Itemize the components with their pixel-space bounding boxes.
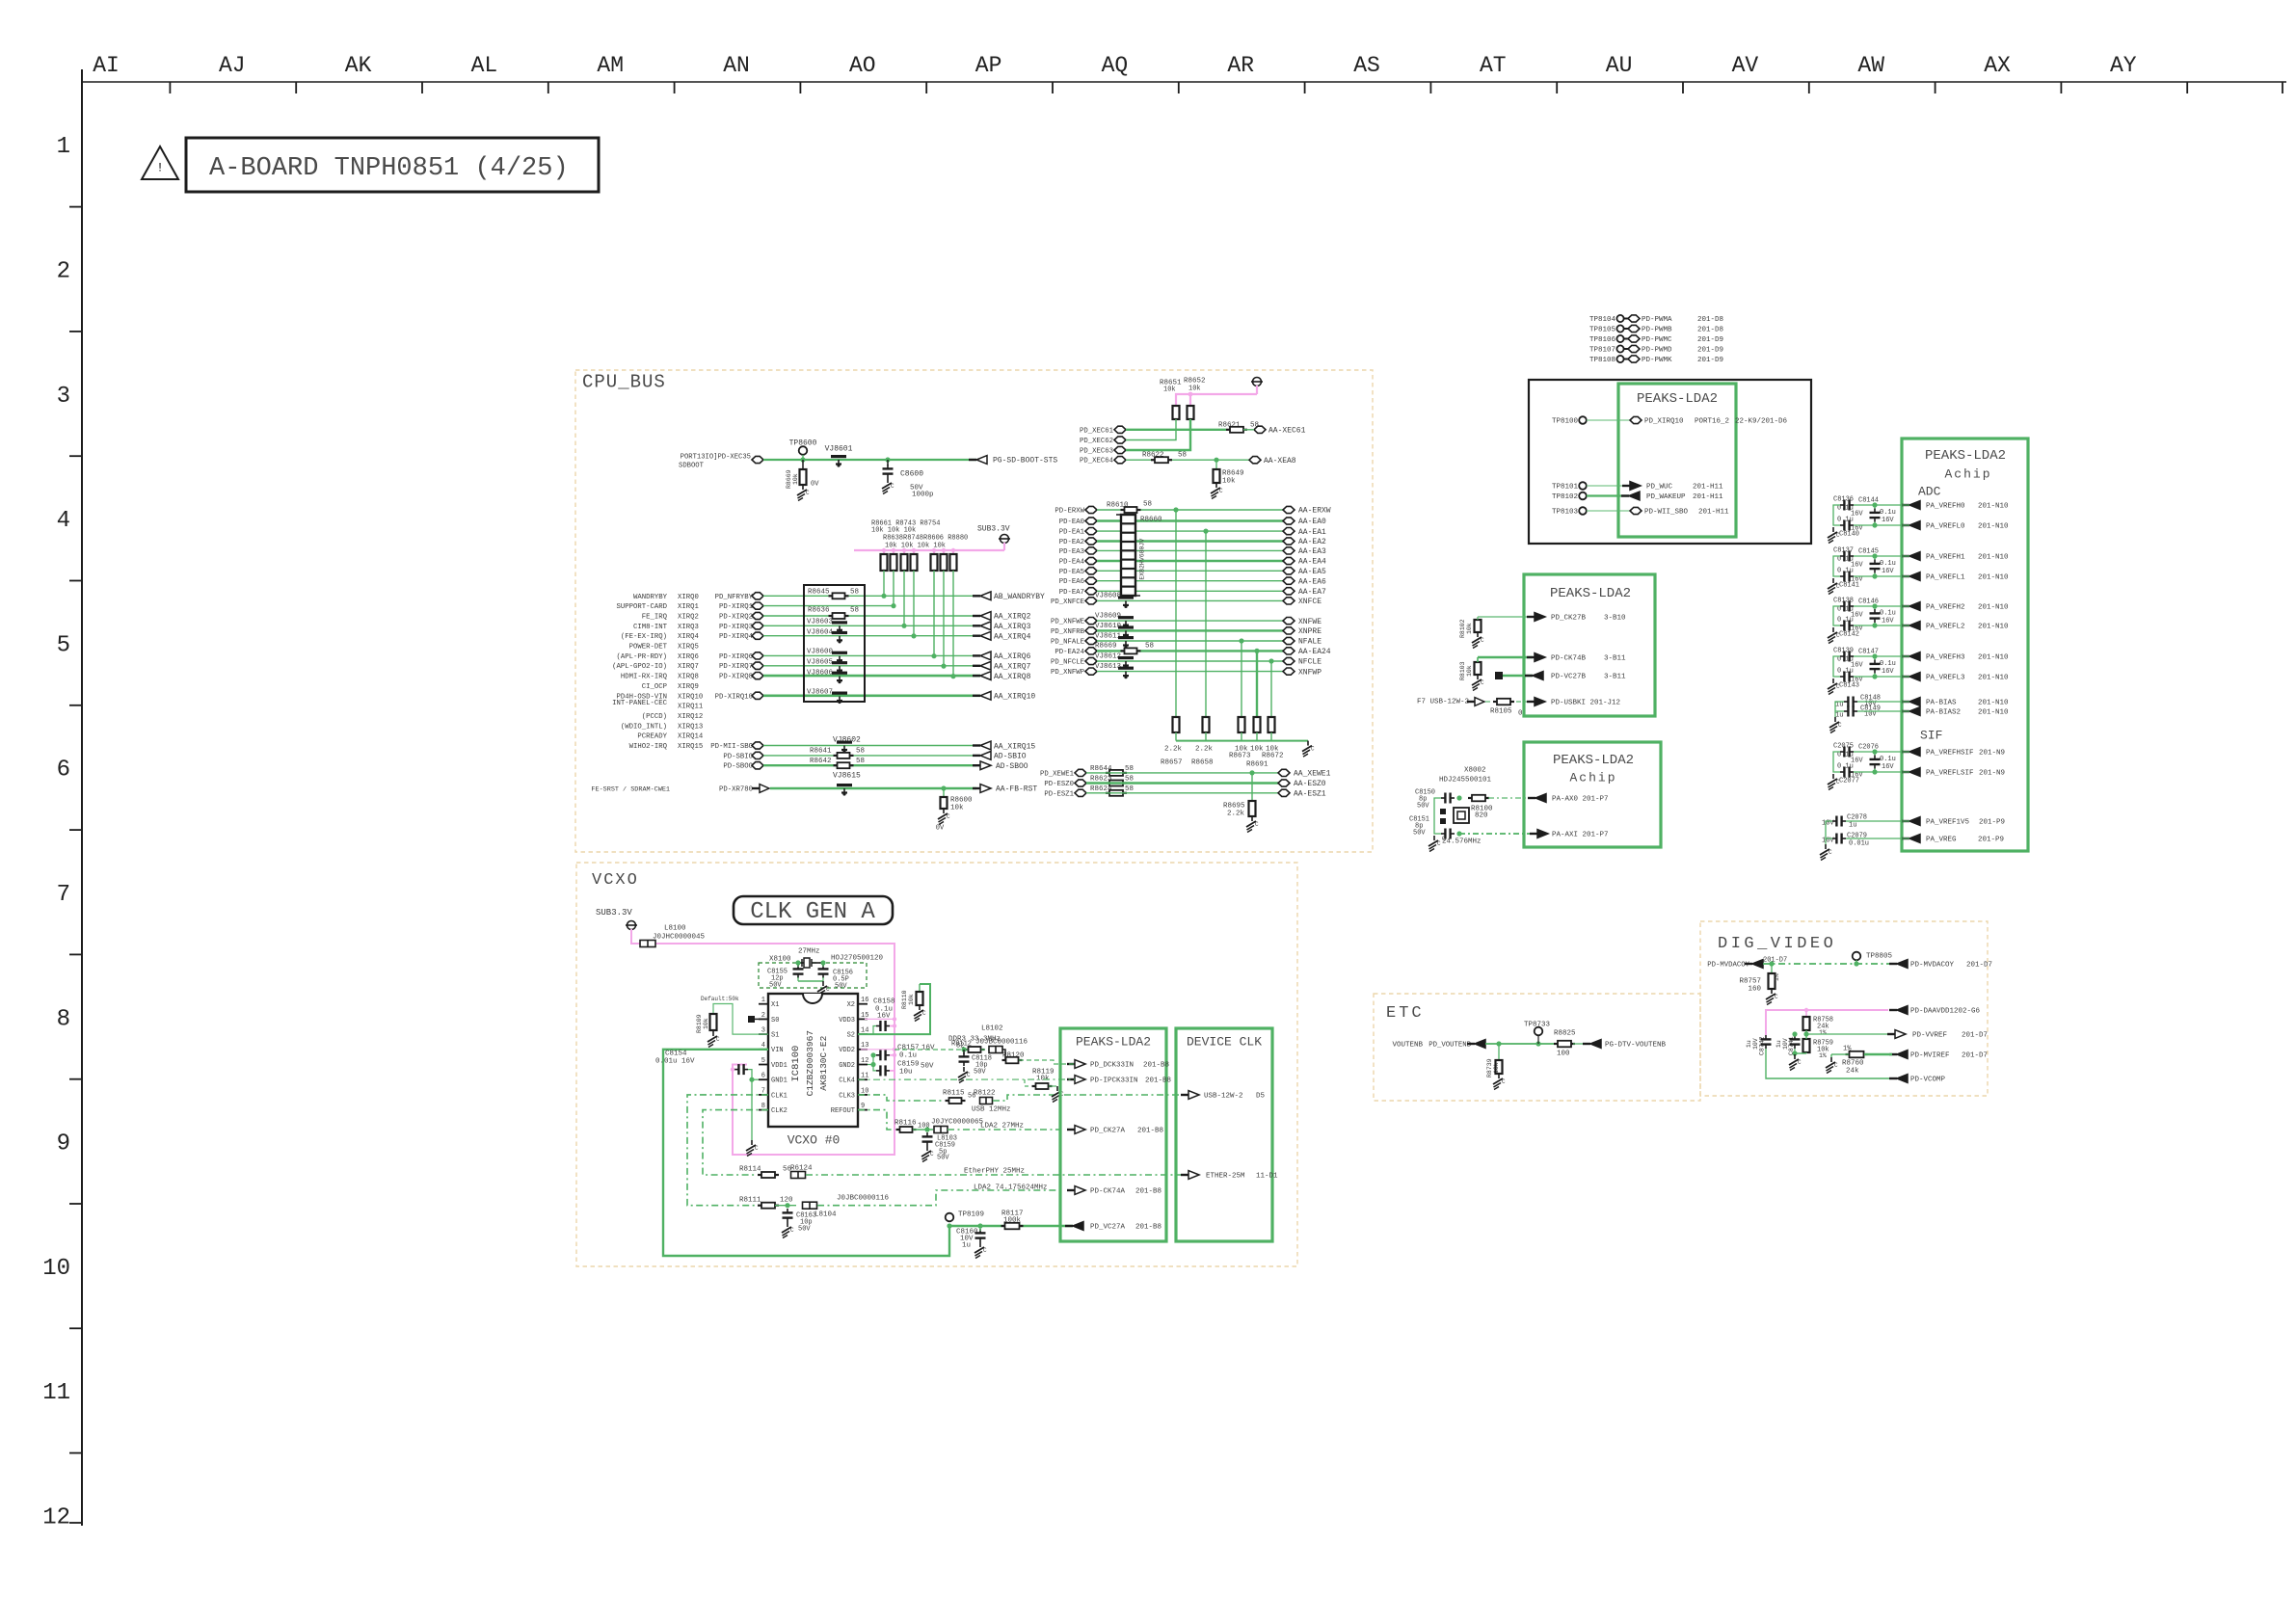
- labels pulldown values: [1164, 746, 1279, 754]
- svg-text:C: C: [1502, 1078, 1506, 1085]
- wire PD-EA1: [1097, 530, 1283, 532]
- svg-text:TP8108: TP8108: [1589, 357, 1615, 364]
- svg-text:PD-MVDACOY: PD-MVDACOY: [1707, 962, 1749, 970]
- wire PD-EA4: [1097, 560, 1283, 562]
- wire PD-EA7: [1097, 590, 1283, 592]
- svg-text:16V: 16V: [1882, 668, 1894, 676]
- labels PD_XNFRB: [1051, 627, 1097, 636]
- svg-text:AA-EA2: AA-EA2: [1298, 538, 1326, 546]
- svg-text:C8141: C8141: [1839, 581, 1859, 589]
- svg-text:EtherPHY 25MHz: EtherPHY 25MHz: [964, 1168, 1025, 1176]
- svg-text:PD_NFRYBY: PD_NFRYBY: [715, 594, 754, 601]
- svg-text:PD_XEC63: PD_XEC63: [1080, 448, 1113, 456]
- node PD-SBOO pin: [752, 762, 763, 769]
- region label CPU_BUS: [582, 372, 666, 393]
- jumper VJ8607: [807, 689, 847, 705]
- labels PD-EA0: [1059, 518, 1097, 526]
- svg-text:R8110: R8110: [901, 990, 908, 1009]
- svg-text:PD-EA3: PD-EA3: [1059, 548, 1084, 556]
- svg-text:TP8105: TP8105: [1589, 327, 1616, 334]
- svg-text:S1: S1: [771, 1032, 779, 1040]
- label 10k row2: [885, 542, 946, 549]
- wire REFOUT out: [858, 1110, 893, 1130]
- resistor R8622 58: [1142, 452, 1187, 464]
- svg-text:NFALE: NFALE: [1298, 638, 1322, 647]
- node PA_VREFHSIF: [1902, 748, 2005, 758]
- svg-text:AQ: AQ: [1102, 53, 1129, 78]
- svg-text:PA_VREFH2: PA_VREFH2: [1926, 604, 1965, 612]
- svg-text:C: C: [1311, 746, 1315, 753]
- svg-text:C: C: [1836, 583, 1840, 590]
- wire PD_XNFWE: [1097, 620, 1283, 622]
- svg-text:SDBOOT: SDBOOT: [679, 462, 705, 469]
- wire S1: [713, 1004, 768, 1035]
- svg-text:58: 58: [1125, 785, 1134, 793]
- svg-text:3-B11: 3-B11: [1604, 674, 1626, 681]
- svg-text:0.1u: 0.1u: [1880, 560, 1896, 568]
- resistor R8114 56: [739, 1166, 792, 1179]
- ground below R8103: [1472, 675, 1484, 691]
- wire pink DAAVDD: [1766, 1008, 1888, 1035]
- wire MVIREF: [1841, 1053, 1892, 1055]
- box PEAKS-LDA2 (2): [1524, 574, 1655, 716]
- wire R8748 to XIRQ row: [911, 571, 916, 639]
- svg-text:160: 160: [1748, 986, 1761, 994]
- svg-text:PD-EA24: PD-EA24: [1055, 649, 1084, 656]
- svg-text:201-H11: 201-H11: [1693, 493, 1723, 501]
- ground below R8110: [914, 1005, 926, 1022]
- svg-text:AA_XIRQ7: AA_XIRQ7: [994, 663, 1031, 672]
- svg-text:16V: 16V: [1882, 517, 1894, 524]
- svg-text:13: 13: [861, 1042, 868, 1050]
- wire XIRQ8: [763, 675, 980, 678]
- svg-text:VJ8603: VJ8603: [807, 619, 834, 626]
- resistor R8649 10k: [1214, 469, 1244, 486]
- svg-text:Achip: Achip: [1944, 466, 1991, 481]
- wire CLK3 out: [858, 1095, 942, 1101]
- node AA-EA1: [1283, 528, 1326, 537]
- svg-text:XIRQ15: XIRQ15: [678, 743, 703, 751]
- svg-text:2: 2: [761, 1012, 765, 1020]
- labels XIRQ rows: [612, 594, 754, 751]
- ground R8119: [1049, 1086, 1064, 1103]
- jumper VJ8611: [1095, 633, 1134, 649]
- svg-text:VJ8607: VJ8607: [807, 689, 833, 697]
- wire PD-EA5: [1097, 570, 1283, 572]
- wire PD_NFCLE: [1097, 660, 1283, 662]
- wire PD-CK74B: [1478, 656, 1533, 658]
- svg-text:AP: AP: [975, 53, 1002, 78]
- svg-text:24k: 24k: [1846, 1068, 1859, 1076]
- label 24.576MHz: [1442, 838, 1482, 846]
- node AA_XIRQ8: [973, 672, 1031, 681]
- svg-text:R8825: R8825: [1554, 1030, 1576, 1038]
- svg-text:PEAKS-LDA2: PEAKS-LDA2: [1550, 586, 1631, 601]
- svg-text:C: C: [1219, 488, 1223, 494]
- svg-text:3-B11: 3-B11: [1604, 655, 1626, 663]
- svg-text:VJ8613: VJ8613: [1095, 663, 1122, 671]
- svg-text:201-N10: 201-N10: [1978, 709, 2009, 717]
- svg-text:201-N10: 201-N10: [1978, 574, 2009, 582]
- ground below R8102: [1472, 632, 1484, 649]
- svg-text:201-D7: 201-D7: [1966, 962, 1992, 970]
- svg-text:XNPRE: XNPRE: [1298, 627, 1322, 636]
- wire XIRQ10: [763, 694, 980, 697]
- svg-text:PA_VREF1V5: PA_VREF1V5: [1926, 819, 1970, 827]
- svg-text:PD-USBKI 201-J12: PD-USBKI 201-J12: [1551, 700, 1620, 707]
- resistor R8115 56: [943, 1090, 975, 1104]
- node PD-VCOMP: [1889, 1075, 1946, 1084]
- svg-text:XNFWP: XNFWP: [1298, 668, 1322, 677]
- node XNFCE: [1283, 598, 1322, 606]
- ground pulldown bus: [1302, 741, 1315, 758]
- wire R8658 bottom: [1205, 732, 1207, 741]
- svg-text:C8159: C8159: [897, 1061, 920, 1069]
- wire XIRQ6: [763, 654, 980, 656]
- node PG-SD-BOOT-STS: [969, 456, 1057, 466]
- wire PA-AXI dash: [1456, 831, 1536, 836]
- crystal X8100: [798, 958, 823, 968]
- node AA-ESZ0: [1278, 780, 1326, 788]
- svg-text:R8739: R8739: [1486, 1058, 1493, 1078]
- node PA_VREFL1: [1902, 572, 2009, 582]
- node PD_XIRQ row 3: [752, 623, 763, 629]
- region VCXO dashed border: [576, 863, 1297, 1266]
- svg-text:PD_XNFWP: PD_XNFWP: [1051, 669, 1084, 677]
- svg-text:XIRQ12: XIRQ12: [678, 713, 703, 721]
- test point TP8105: [1589, 325, 1723, 333]
- svg-text:AA_XEWE1: AA_XEWE1: [1294, 770, 1331, 779]
- svg-text:SIF: SIF: [1920, 728, 1942, 742]
- svg-text:C1ZBZ0003967: C1ZBZ0003967: [805, 1030, 815, 1096]
- wire XIRQ7: [763, 665, 980, 667]
- svg-text:R8600: R8600: [950, 797, 973, 805]
- resistor R8116 100: [894, 1120, 930, 1133]
- jumper VJ8613: [1095, 663, 1134, 678]
- labels PD_XNFWP: [1051, 668, 1097, 677]
- svg-text:201-N10: 201-N10: [1978, 700, 2009, 707]
- svg-text:C8154: C8154: [665, 1051, 687, 1058]
- svg-text:0.1u: 0.1u: [1837, 616, 1854, 624]
- capacitors C8138 C8146 C8142: [1828, 597, 1909, 643]
- node PD_XIRQ row 10: [752, 692, 763, 699]
- svg-text:PD-PWMD: PD-PWMD: [1642, 347, 1672, 355]
- svg-text:PORT16_2: PORT16_2: [1695, 418, 1729, 426]
- inductor L8104: [803, 1202, 838, 1218]
- svg-text:R8638R8748R8606 R8880: R8638R8748R8606 R8880: [883, 534, 968, 542]
- svg-text:C: C: [922, 1010, 926, 1017]
- resistor R8111 120: [739, 1197, 793, 1209]
- box crystal dashed: [759, 963, 867, 988]
- junction XEC64: [1214, 458, 1218, 463]
- svg-text:PEAKS-LDA2: PEAKS-LDA2: [1553, 753, 1634, 768]
- inductor L8103: [934, 1127, 957, 1143]
- svg-text:PA-AXI 201-P7: PA-AXI 201-P7: [1552, 832, 1609, 839]
- svg-text:AN: AN: [723, 53, 750, 78]
- svg-text:R8658: R8658: [1191, 759, 1214, 767]
- label PEAKS-LDA2 (1): [1637, 391, 1718, 407]
- node AA_XIRQ15: [973, 741, 1035, 751]
- svg-text:50V: 50V: [974, 1068, 986, 1076]
- svg-text:C2078: C2078: [1847, 813, 1867, 821]
- ground below C8163: [782, 1222, 794, 1238]
- wire PD_CK27B: [1478, 616, 1533, 618]
- wire PD-VC27B: [1503, 675, 1533, 677]
- wire vertical R8657: [1173, 507, 1178, 717]
- svg-text:1u: 1u: [1849, 821, 1856, 829]
- capacitor C8163: [783, 1209, 817, 1233]
- svg-text:201-P9: 201-P9: [1979, 819, 2005, 827]
- svg-text:NFCLE: NFCLE: [1298, 658, 1322, 667]
- svg-text:AL: AL: [471, 53, 498, 78]
- svg-text:16V: 16V: [1882, 763, 1894, 771]
- wire R8110: [858, 984, 930, 1034]
- label J0JYC0000065: [931, 1119, 984, 1127]
- test point TP8100: [1552, 416, 1587, 425]
- wire pulldown bus: [1176, 740, 1308, 742]
- svg-text:2: 2: [57, 259, 70, 285]
- svg-text:TP8101: TP8101: [1552, 484, 1579, 492]
- svg-text:PD-XIRQ1: PD-XIRQ1: [719, 603, 754, 611]
- pad PD-VC27B: [1495, 672, 1503, 679]
- svg-text:TP8103: TP8103: [1552, 509, 1579, 517]
- svg-text:C: C: [755, 1145, 759, 1152]
- svg-text:PD_XNFWE: PD_XNFWE: [1051, 619, 1084, 626]
- resistor R8600 10k: [941, 797, 974, 812]
- svg-text:1%: 1%: [1819, 1029, 1827, 1036]
- svg-text:Achip: Achip: [1569, 770, 1616, 785]
- svg-text:201-D8: 201-D8: [1697, 327, 1723, 334]
- label Achip (4): [1944, 466, 1991, 481]
- resistor R8117 100k: [1001, 1211, 1024, 1230]
- node PD_DCK33IN: [1067, 1060, 1169, 1070]
- svg-text:TP8107: TP8107: [1589, 347, 1615, 355]
- labels PD-ESZ0: [1044, 780, 1086, 788]
- wire PD_XNFCE: [1097, 599, 1283, 601]
- wire crystal caps: [798, 963, 823, 981]
- wire VCOMP: [1766, 1049, 1893, 1078]
- svg-text:AB_WANDRYBY: AB_WANDRYBY: [994, 593, 1045, 601]
- node PA_VREF1V5: [1902, 817, 2005, 827]
- svg-text:C: C: [930, 1151, 934, 1157]
- svg-text:L8100: L8100: [664, 925, 686, 933]
- node PA-BIAS: [1902, 698, 2009, 707]
- region ETC dashed border: [1374, 994, 1700, 1101]
- svg-text:10: 10: [42, 1256, 70, 1282]
- svg-text:ETC: ETC: [1386, 1004, 1425, 1023]
- svg-text:AA-FB-RST: AA-FB-RST: [996, 785, 1037, 794]
- capacitor C8156: [818, 965, 854, 990]
- IC pins right: [831, 997, 869, 1115]
- svg-text:XIRQ9: XIRQ9: [678, 683, 699, 691]
- svg-text:PEAKS-LDA2: PEAKS-LDA2: [1076, 1034, 1151, 1049]
- svg-text:AX: AX: [1984, 53, 2011, 78]
- svg-text:CLK2: CLK2: [771, 1107, 788, 1115]
- resistor R8102 10k: [1459, 617, 1482, 638]
- svg-text:R8115: R8115: [943, 1090, 965, 1098]
- svg-text:AA-EA1: AA-EA1: [1298, 528, 1326, 537]
- resistor R8119 10k: [1025, 1069, 1055, 1090]
- node VOUTENB: [1392, 1040, 1485, 1050]
- wire R8638 to XIRQ row: [891, 571, 895, 608]
- wire IPCK33IN dash: [858, 1078, 1075, 1080]
- node AA-FB-RST: [973, 785, 1037, 794]
- svg-text:201-H11: 201-H11: [1693, 484, 1723, 492]
- svg-text:FE_IRQ: FE_IRQ: [642, 614, 668, 622]
- node PD_XIRQ row 7: [752, 662, 763, 669]
- svg-text:R8660: R8660: [1140, 517, 1162, 524]
- wire pink XEC: [1176, 392, 1257, 406]
- ground below R8757: [1766, 989, 1778, 1005]
- svg-text:201-H11: 201-H11: [1698, 509, 1729, 517]
- svg-text:PD-SBIO: PD-SBIO: [723, 753, 753, 760]
- svg-text:(PCCD): (PCCD): [642, 713, 667, 721]
- wire XIRQ0: [763, 595, 980, 597]
- svg-text:PA-BIAS2: PA-BIAS2: [1926, 709, 1961, 717]
- svg-text:HDMI-RX-IRQ: HDMI-RX-IRQ: [621, 674, 668, 681]
- resistor R8651 10k: [1173, 406, 1180, 419]
- warning triangle: [142, 146, 178, 179]
- power SUB3.3V (CPU_BUS): [977, 525, 1010, 550]
- junction C8163: [775, 1203, 796, 1208]
- svg-text:PD_XEC61: PD_XEC61: [1080, 427, 1114, 435]
- node PD-VC27B: [1525, 672, 1626, 681]
- svg-text:PD-PWMB: PD-PWMB: [1642, 327, 1672, 334]
- node PD_WUC: [1622, 482, 1723, 492]
- svg-text:PD-IPCK33IN: PD-IPCK33IN: [1090, 1078, 1138, 1085]
- capacitors C8139 C8147 C8143: [1828, 647, 1909, 694]
- svg-text:Default:50k: Default:50k: [701, 996, 739, 1002]
- svg-text:PD-CK74B: PD-CK74B: [1551, 655, 1587, 663]
- svg-text:201-B8: 201-B8: [1137, 1128, 1163, 1135]
- box PEAKS-LDA2 Achip: [1524, 742, 1661, 847]
- test point TP8109: [946, 1211, 984, 1229]
- svg-text:XIRQ4: XIRQ4: [678, 633, 700, 641]
- svg-text:AA-EA6: AA-EA6: [1298, 577, 1326, 586]
- svg-text:C: C: [1798, 1059, 1802, 1066]
- svg-text:PA_VREFL1: PA_VREFL1: [1926, 574, 1965, 582]
- svg-text:1u: 1u: [962, 1242, 971, 1250]
- svg-text:PD-EA7: PD-EA7: [1059, 589, 1084, 597]
- svg-text:X8002: X8002: [1464, 767, 1486, 775]
- svg-text:EXB2HV680JV: EXB2HV680JV: [1139, 539, 1146, 580]
- svg-text:PD-SBOO: PD-SBOO: [723, 763, 753, 771]
- svg-text:SUB3.3V: SUB3.3V: [596, 908, 632, 918]
- svg-text:IC8100: IC8100: [790, 1046, 802, 1082]
- node XNFWP: [1283, 668, 1322, 677]
- wire pink pull-up bus: [854, 549, 1004, 551]
- labels PD-EA3: [1059, 547, 1097, 556]
- svg-text:LDA2 74.175624MHz: LDA2 74.175624MHz: [974, 1184, 1048, 1192]
- capacitors C8136 C8144 C8140: [1828, 495, 1909, 543]
- wire CK74 dash: [817, 1190, 1061, 1206]
- svg-text:PA-AX0 201-P7: PA-AX0 201-P7: [1552, 796, 1609, 804]
- region label VCXO: [592, 871, 639, 890]
- svg-text:PG-DTV-VOUTENB: PG-DTV-VOUTENB: [1605, 1042, 1667, 1050]
- svg-text:PD-VC27B: PD-VC27B: [1551, 674, 1587, 681]
- node PD-CK74A: [1067, 1186, 1161, 1196]
- node PD-SBIO pin: [752, 752, 763, 758]
- svg-text:INT-PANEL-CEC: INT-PANEL-CEC: [612, 700, 668, 707]
- svg-text:R8645: R8645: [808, 589, 830, 597]
- svg-text:15: 15: [861, 1012, 868, 1020]
- row tick marks: [69, 207, 82, 1523]
- svg-text:TP8805: TP8805: [1866, 953, 1893, 961]
- region DIG_VIDEO dashed border: [1700, 921, 1988, 1096]
- svg-text:10u: 10u: [899, 1069, 913, 1077]
- wire PD-EA24: [1097, 650, 1283, 652]
- node AA-XEA8: [1249, 457, 1296, 466]
- svg-text:PA_VREFHSIF: PA_VREFHSIF: [1926, 750, 1974, 758]
- column tick marks: [170, 82, 2283, 93]
- label USB 12MHz: [972, 1106, 1011, 1114]
- svg-text:1%: 1%: [1819, 1052, 1827, 1059]
- ground below C8159 (vcxo): [921, 1146, 934, 1162]
- svg-text:C: C: [1834, 1062, 1838, 1069]
- svg-text:R8649: R8649: [1222, 470, 1244, 478]
- svg-text:PD-XIRQ8: PD-XIRQ8: [719, 674, 753, 681]
- wire XEC63: [1126, 419, 1190, 450]
- label PEAKS-LDA2 (vcxo): [1076, 1034, 1151, 1049]
- svg-text:XIRQ7: XIRQ7: [678, 663, 699, 671]
- junction crystal top: [1456, 795, 1461, 800]
- node PD_XEC64 pin: [1114, 457, 1126, 464]
- wire R8120 to DCK33IN: [1019, 1060, 1075, 1064]
- svg-text:PD-EA0: PD-EA0: [1059, 519, 1084, 526]
- resistor R8641 58: [810, 747, 865, 758]
- column labels AI-AY: [93, 53, 2137, 78]
- svg-text:TP8104: TP8104: [1589, 316, 1616, 324]
- svg-text:0.1u: 0.1u: [1837, 567, 1854, 574]
- svg-text:0.1u: 0.1u: [899, 1052, 917, 1060]
- ground below R8109: [707, 1031, 720, 1048]
- svg-text:C: C: [967, 1072, 971, 1078]
- svg-text:22-K9/201-D6: 22-K9/201-D6: [1735, 418, 1788, 426]
- svg-text:0.01u: 0.01u: [1849, 839, 1869, 847]
- svg-text:AA-EA3: AA-EA3: [1298, 547, 1326, 556]
- node NFALE: [1283, 637, 1322, 646]
- node PD_XIRQ row 2: [752, 612, 763, 619]
- wire MVDACOY dash: [1763, 961, 1892, 966]
- label R8651 R8652: [1160, 378, 1206, 394]
- svg-text:PD-VCOMP: PD-VCOMP: [1910, 1077, 1946, 1084]
- resistor R8112 82: [951, 1040, 985, 1052]
- svg-text:GND1: GND1: [771, 1078, 788, 1085]
- svg-text:PD_XNFRB: PD_XNFRB: [1051, 628, 1085, 636]
- svg-text:PA_VREG: PA_VREG: [1926, 837, 1957, 844]
- svg-text:C: C: [806, 490, 810, 496]
- jumper VJ8604: [807, 629, 847, 644]
- wire XEC64: [1126, 459, 1249, 461]
- resistor R8691 10k: [1254, 717, 1261, 732]
- node PD-CK74B: [1527, 653, 1626, 663]
- svg-text:XNFCE: XNFCE: [1298, 598, 1322, 606]
- svg-text:AD-SBIO: AD-SBIO: [994, 753, 1027, 761]
- svg-text:PD-PWMK: PD-PWMK: [1642, 357, 1672, 364]
- node AB_WANDRYBY: [973, 592, 1045, 601]
- ground below C8151: [1428, 836, 1446, 852]
- resistor R8759 10k: [1803, 1034, 1834, 1059]
- wire PD-EA3: [1097, 549, 1283, 551]
- svg-text:C: C: [1836, 632, 1840, 639]
- node PD_XIRQ row 15: [752, 742, 763, 749]
- capacitor C8151: [1409, 815, 1455, 838]
- svg-text:201-N10: 201-N10: [1978, 554, 2009, 562]
- svg-text:PD_CK27A: PD_CK27A: [1090, 1128, 1126, 1135]
- svg-text:X8100: X8100: [769, 956, 791, 964]
- wire crystal left: [1434, 798, 1441, 834]
- resistor R8760 24k: [1842, 1045, 1868, 1075]
